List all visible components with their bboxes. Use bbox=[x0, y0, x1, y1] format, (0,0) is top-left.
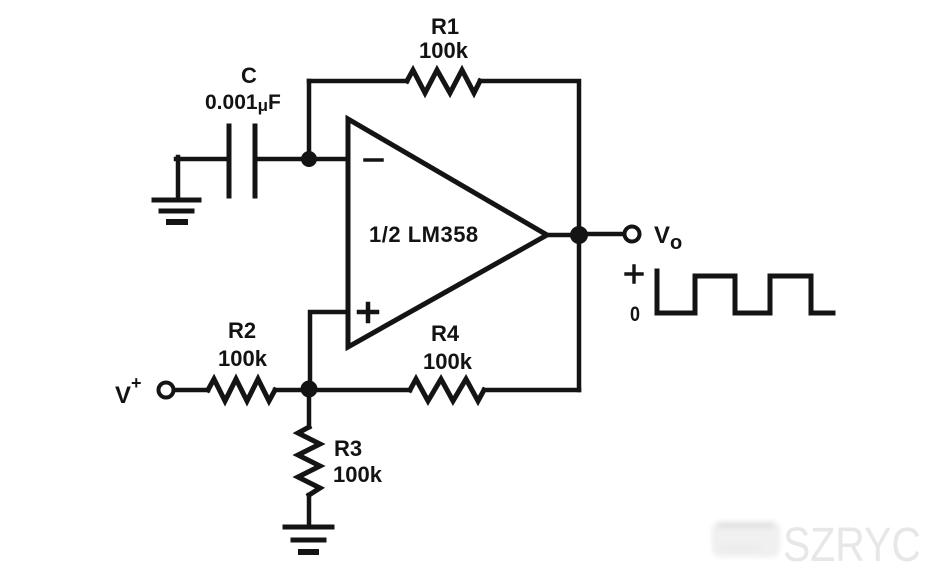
label R2 value bbox=[218, 318, 268, 371]
svg-text:C: C bbox=[241, 63, 257, 88]
ground (bottom, R3) bbox=[285, 527, 332, 552]
capacitor C bbox=[229, 126, 255, 196]
wire op-amp apex to output node bbox=[545, 233, 579, 238]
svg-text:V: V bbox=[115, 382, 131, 409]
resistor R2 bbox=[208, 379, 275, 401]
svg-text:o: o bbox=[670, 232, 682, 254]
resistor R3 bbox=[298, 427, 320, 495]
wire output node to terminal bbox=[579, 232, 623, 237]
op-amp U1 bbox=[348, 119, 547, 347]
node B (non-inverting divider junction) bbox=[301, 381, 318, 398]
wire ground-to-capacitor bbox=[176, 157, 227, 198]
wire R3 to ground bbox=[307, 495, 312, 527]
resistor R4 bbox=[410, 379, 484, 401]
svg-text:100k: 100k bbox=[333, 462, 383, 487]
output square waveform bbox=[657, 271, 833, 313]
svg-text:0.001μF: 0.001μF bbox=[205, 91, 281, 115]
wire non-inverting input with riser bbox=[310, 312, 350, 389]
terminal Vo (open circle) bbox=[625, 227, 640, 242]
ground (left, capacitor) bbox=[154, 200, 199, 222]
node A (inverting input junction) bbox=[301, 151, 317, 167]
wire R4 to right vertical bbox=[484, 388, 579, 393]
wire node B to R4 bbox=[309, 388, 410, 393]
label R4 value bbox=[423, 321, 473, 374]
label R1 value bbox=[419, 14, 469, 63]
svg-text:SZRYC: SZRYC bbox=[783, 519, 921, 570]
waveform plus label bbox=[626, 266, 642, 282]
wire node B down to R3 bbox=[307, 389, 312, 427]
svg-text:100k: 100k bbox=[423, 349, 473, 374]
svg-text:100k: 100k bbox=[218, 346, 268, 371]
svg-text:+: + bbox=[131, 373, 142, 393]
wire top rail right of R1 and right vertical bbox=[480, 81, 579, 390]
wire capacitor to inverting node bbox=[257, 157, 309, 162]
wire top rail left of R1 bbox=[309, 79, 407, 84]
wire R2 to node B bbox=[275, 388, 309, 393]
resistor R1 bbox=[407, 70, 480, 93]
svg-text:R2: R2 bbox=[228, 318, 256, 343]
wire V+ terminal to R2 bbox=[174, 388, 208, 393]
label V+ bbox=[115, 373, 142, 409]
svg-text:0: 0 bbox=[630, 303, 640, 326]
svg-text:1/2 LM358: 1/2 LM358 bbox=[369, 222, 479, 247]
svg-text:100k: 100k bbox=[419, 38, 469, 63]
node output bbox=[570, 226, 588, 244]
terminal V+ (open circle) bbox=[159, 383, 174, 398]
svg-text:R3: R3 bbox=[334, 436, 362, 461]
label Vo bbox=[654, 222, 682, 254]
wire inverting input bbox=[309, 157, 350, 162]
label R3 value bbox=[333, 436, 383, 487]
watermark logo smudge bbox=[712, 521, 780, 557]
wire node A up to top rail bbox=[307, 81, 312, 159]
svg-text:R1: R1 bbox=[431, 14, 459, 39]
label C value bbox=[205, 63, 281, 115]
svg-text:V: V bbox=[654, 222, 670, 249]
svg-text:R4: R4 bbox=[431, 321, 460, 346]
